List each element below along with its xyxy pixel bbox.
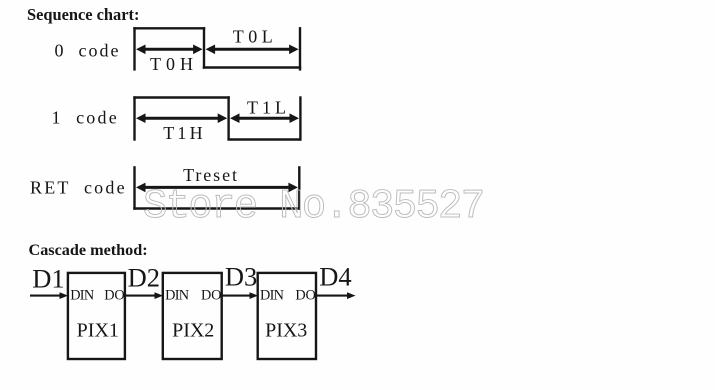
wire: 0-code rising edge (left) [133,27,135,71]
wire: 0-code low level T0L [203,66,301,68]
svg-text:T1L: T1L [247,98,290,118]
svg-text:PIX3: PIX3 [265,320,307,342]
wire: 1-code right boundary [299,96,301,140]
pixel block PIX3 [258,273,316,359]
svg-text:D2: D2 [128,263,160,293]
dimension arrow for Treset [136,183,298,193]
wire: 1-code rising edge (left) [133,96,135,140]
wire: RET-code right boundary [298,166,300,210]
svg-text:PIX2: PIX2 [172,320,214,342]
wire: D4 output arrow from PIX3 DO [316,292,356,299]
dimension arrow for T0H [136,45,203,55]
wire: D1 input arrow into PIX1 DIN [30,292,68,299]
wire: 1-code high level T1H [133,96,230,98]
wire: 1-code falling edge [227,96,229,139]
pixel block PIX1 [68,273,125,359]
svg-text:DIN: DIN [70,288,94,304]
svg-text:DO: DO [104,288,124,304]
svg-text:DIN: DIN [165,288,189,304]
svg-text:Treset: Treset [183,165,239,185]
wire: 1-code low level T1L [227,138,301,140]
svg-text:DIN: DIN [260,288,284,304]
dimension arrow for T1H [136,113,227,123]
wire: D3 link from PIX2 DO to PIX3 DIN [221,292,258,299]
svg-text:D1: D1 [32,264,64,294]
svg-text:PIX1: PIX1 [77,320,119,342]
svg-text:D4: D4 [319,262,351,292]
svg-text:D3: D3 [225,262,257,292]
svg-text:T0H: T0H [150,54,198,74]
svg-text:1 code: 1 code [52,108,119,128]
wire: 0-code right boundary [299,27,301,71]
svg-text:DO: DO [201,288,221,304]
wire: RET-code left boundary [133,166,135,210]
wire: 0-code high level T0H [133,27,205,29]
svg-text:T1H: T1H [163,123,206,143]
dimension arrow for T0L [206,45,299,55]
wire: 0-code falling edge [203,27,205,69]
svg-text:DO: DO [295,288,315,304]
svg-text:0 code: 0 code [55,41,121,61]
svg-text:Sequence chart:: Sequence chart: [27,5,139,24]
dimension arrow for T1L [230,113,299,123]
pixel block PIX2 [163,273,222,359]
svg-text:RET code: RET code [30,178,127,198]
wire: RET-code low level Treset [133,207,300,209]
svg-text:T0L: T0L [233,27,278,47]
svg-text:Store No.835527: Store No.835527 [143,184,484,230]
svg-text:Cascade method:: Cascade method: [29,241,148,259]
wire: D2 link from PIX1 DO to PIX2 DIN [125,292,163,299]
